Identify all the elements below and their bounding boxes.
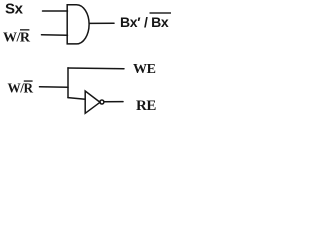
- svg-text:Bx′ / Bx: Bx′ / Bx: [120, 14, 169, 30]
- svg-text:WE: WE: [133, 62, 156, 77]
- overline on R (top W/R): [20, 29, 29, 30]
- wire branch to inverter input: [68, 98, 85, 100]
- svg-text:W/R: W/R: [8, 81, 34, 96]
- svg-text:RE: RE: [136, 98, 156, 114]
- inverter U2 bubble: [100, 100, 104, 104]
- wire vertical branch junction: [67, 68, 69, 98]
- wire inverter output to RE: [104, 101, 123, 103]
- wire Sx to AND gate input: [43, 10, 68, 12]
- wire branch to WE: [68, 67, 124, 70]
- inverter U2 triangle: [85, 91, 100, 113]
- wire W/R input lower circuit: [40, 86, 69, 89]
- overline on R (bottom W/R): [24, 80, 33, 81]
- svg-text:Sx: Sx: [5, 1, 24, 18]
- svg-text:W/R: W/R: [3, 31, 31, 46]
- wire AND gate output to Bx label: [90, 22, 115, 24]
- wire W/R to AND gate input: [42, 34, 68, 36]
- overline on Bx output: [150, 12, 172, 13]
- and-gate U1: [67, 5, 89, 44]
